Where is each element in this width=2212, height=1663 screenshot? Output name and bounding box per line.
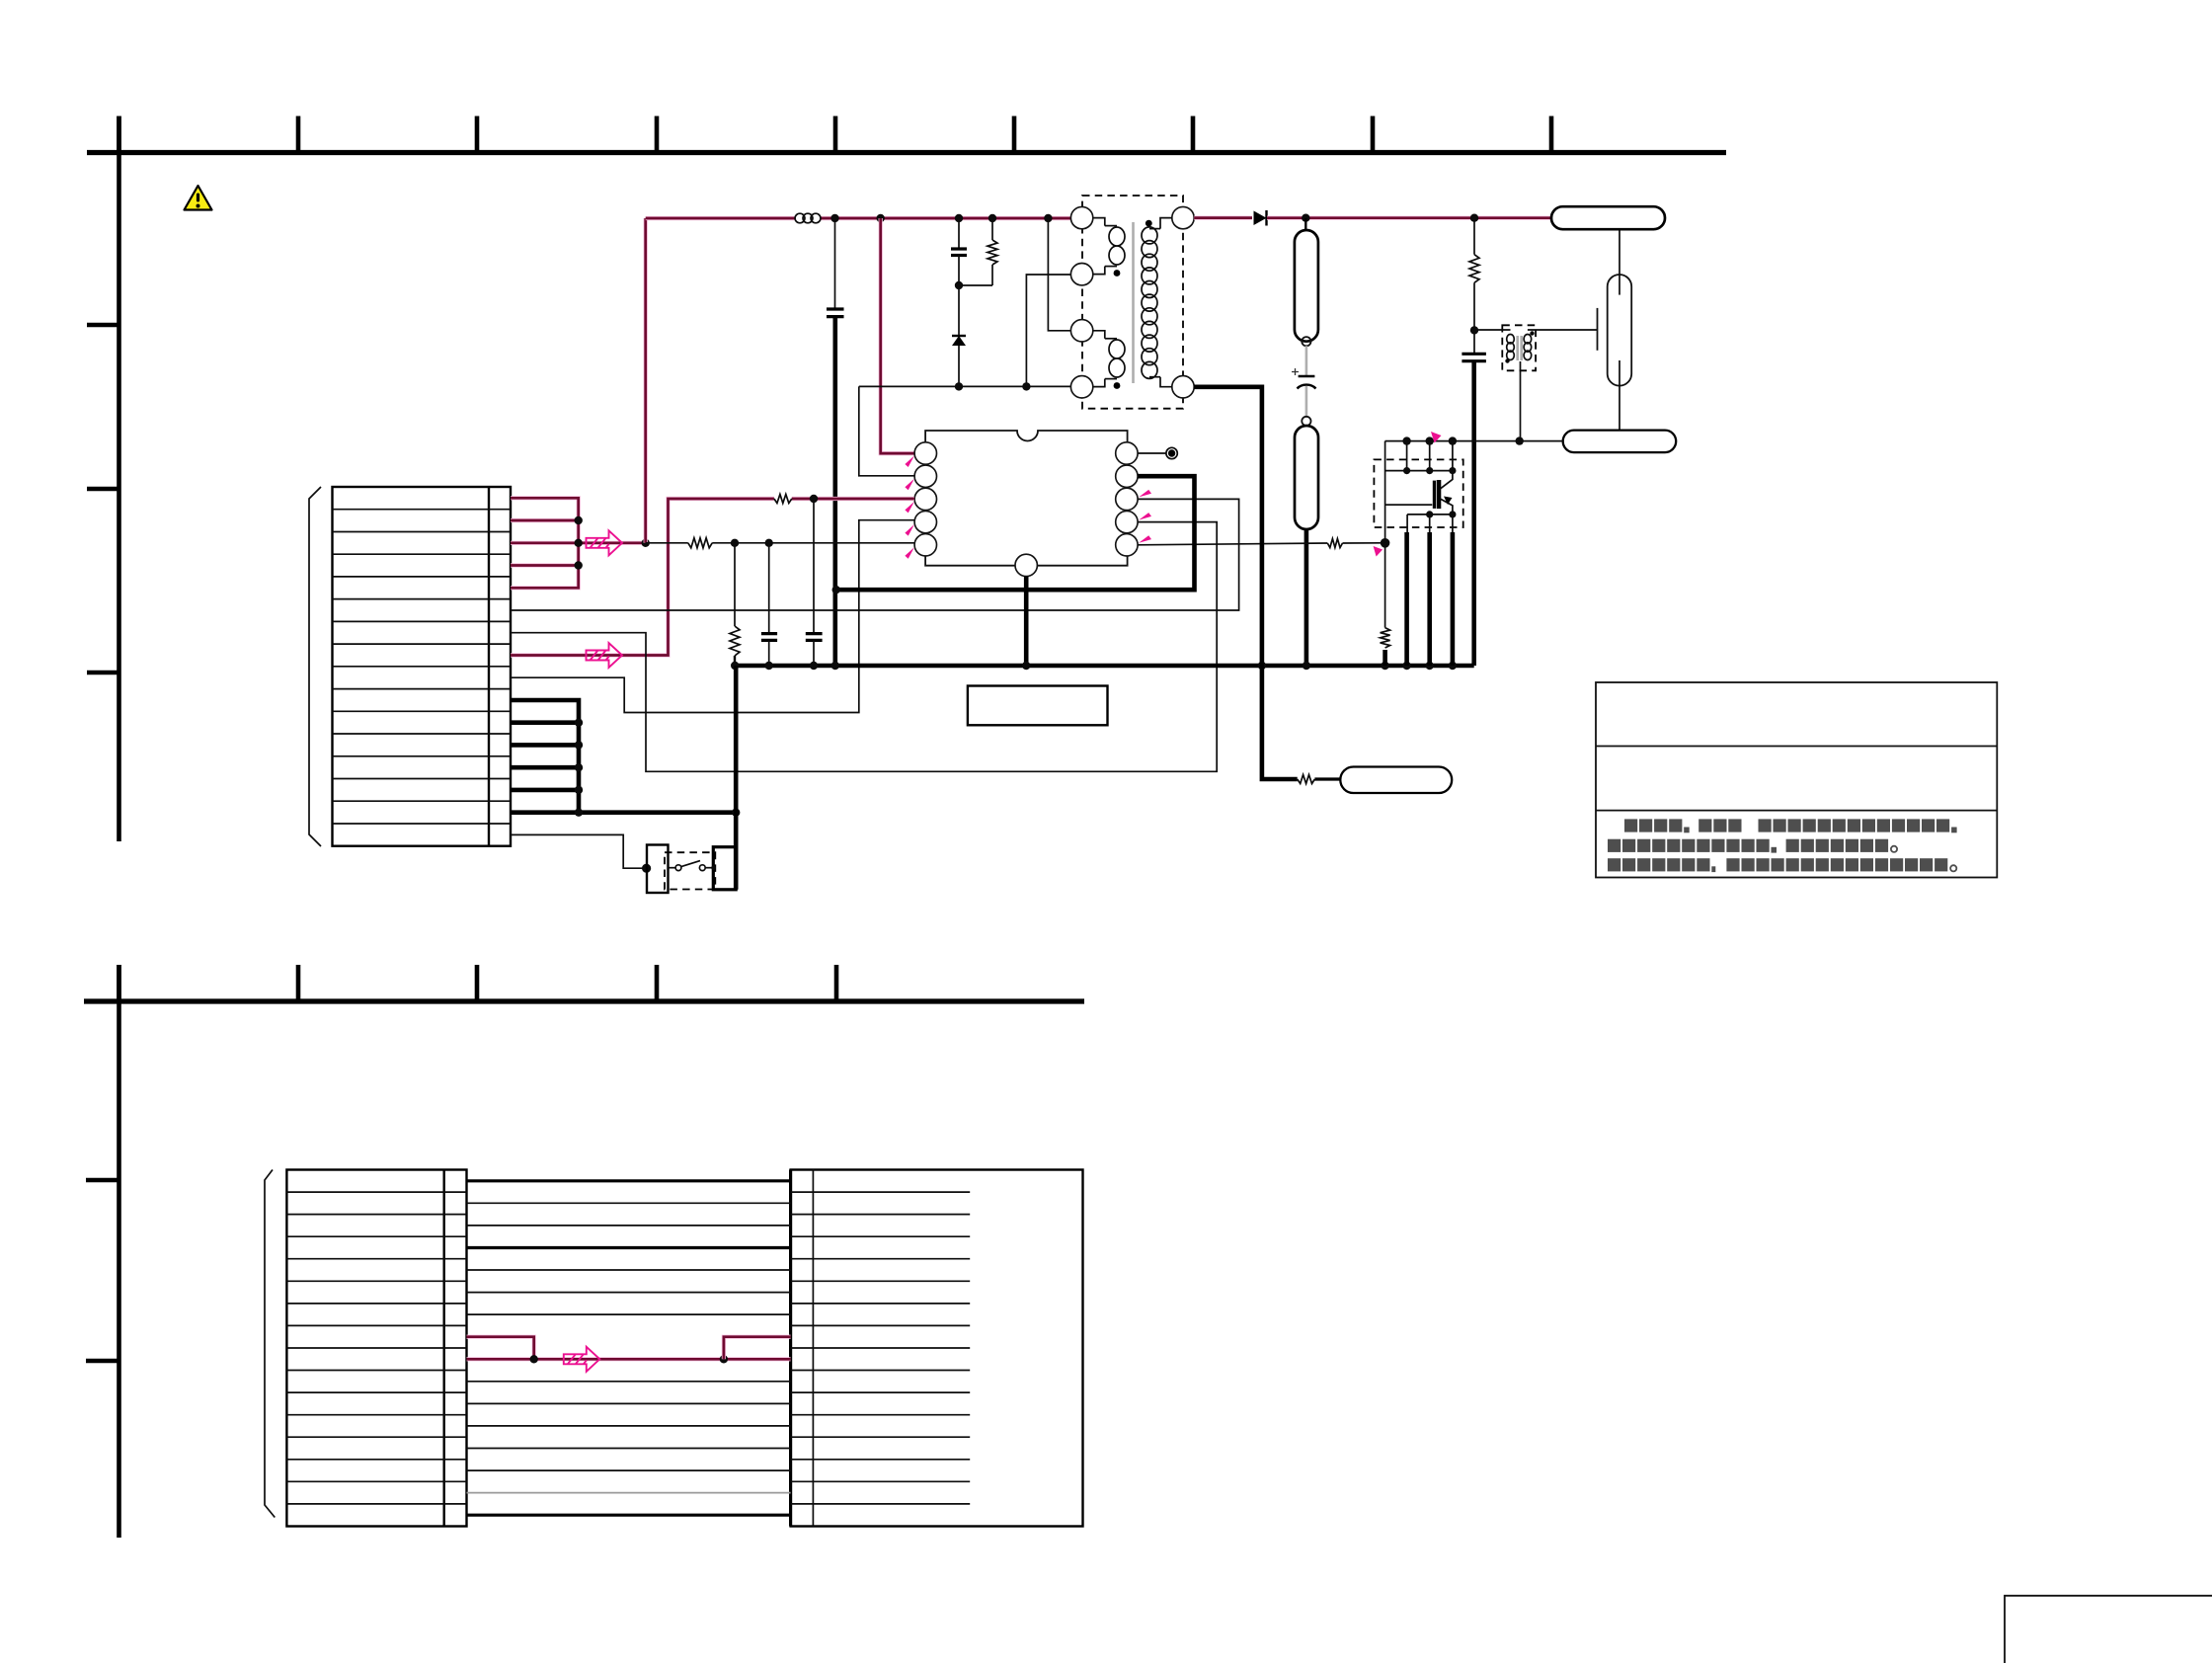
junction dot at switch input: [642, 864, 651, 873]
IC1 bottom pin: [1015, 554, 1037, 576]
resistor R4 (series resistor on pin3 feed): [774, 495, 792, 504]
wire (thick drop C4 to ground bus corner): [1471, 361, 1476, 666]
pink markers at IC1 left pins: [905, 456, 914, 468]
resistor R7 (gate series resistor): [1327, 539, 1342, 548]
flow arrow A3 (lower section): [564, 1347, 600, 1372]
bracket of CN2: [265, 1170, 275, 1518]
wire (thick drop bus to switch right block): [734, 666, 739, 890]
Q1 gate and channel bars: [1433, 481, 1436, 509]
capacitor C6 (pin3 filter cap): [813, 499, 815, 634]
junction dots on magenta bus: [575, 516, 583, 524]
Q1 emitter/kelvin bottom line: [1407, 514, 1453, 515]
diode D2 (secondary rectifier): [1254, 211, 1267, 226]
wire (magenta CN1 row3 to node A): [511, 541, 646, 545]
Q1 internal gate ladder: [1385, 470, 1453, 472]
resistor R1 (snubber resistor): [991, 218, 993, 240]
connector half (left rect of S1): [647, 845, 669, 894]
wires (lower harness rows 5-7): [467, 1269, 791, 1271]
resistor R5: [688, 538, 712, 548]
net tag TAG3 (pill): [1340, 767, 1452, 794]
capacitor C4 (damper cap): [1473, 330, 1475, 354]
surge arrester SA1 (capsule): [1608, 275, 1632, 386]
transistor Q1 (IGBT in dashed safety box): [1374, 459, 1462, 527]
switch S1 (AC interlock switch, dashed box): [665, 852, 715, 889]
IC1 left pins: [914, 442, 936, 464]
inductor L1 (line filter choke on rail): [795, 213, 821, 223]
pink marker near gate line: [1431, 432, 1442, 443]
wire (thick T1 secondary return): [1194, 387, 1262, 666]
wire (thick drop to R9 tag): [1262, 666, 1298, 779]
connector CN2 (lower left connector block): [286, 1170, 466, 1527]
T1 primary pins (left): [1070, 206, 1092, 228]
resistor R8 (gate-emitter resistor): [1384, 543, 1386, 628]
wire (lower harness row 15 gray): [467, 1492, 791, 1494]
capacitor C3 (electrolytic, polarized): [1305, 346, 1308, 376]
wire (thick row15 bus to switch column): [511, 810, 736, 815]
capacitor C1 (line cap below rail): [834, 218, 836, 309]
flow arrow A2 (pink hollow arrow row8): [587, 643, 623, 668]
resistor R9 (sense resistor to tag): [1298, 775, 1315, 784]
junction dot C2/R1: [955, 281, 963, 289]
wire (maroon rail T1 to diode D2): [1194, 216, 1252, 220]
wire (thick drop F2 to ground bus): [1304, 529, 1309, 666]
wire (T1 pin2 sense line): [1026, 275, 1070, 386]
wire (magenta rail branch to IC pin1): [881, 218, 914, 453]
capacitor C5: [768, 543, 770, 634]
diode D1 (clamp diode): [958, 285, 960, 336]
text line 3: [1608, 858, 1620, 871]
wire (thick IC1 bottom pin to ground bus): [1024, 577, 1029, 666]
junction dots on magenta row 9: [530, 1355, 538, 1363]
text line 1: [1624, 819, 1637, 831]
wire (thick Q1 stubs to ground bus): [1404, 532, 1409, 666]
fuse F1 (vertical capsule): [1304, 218, 1306, 230]
wire (T2 secondary return): [1520, 361, 1522, 441]
wire (lower harness row 4 thick): [467, 1246, 791, 1249]
wire (magenta vertical node A to top rail): [644, 218, 648, 543]
surge gap electrode: [1597, 308, 1599, 351]
wire (thick neutral drop from C1): [832, 317, 837, 666]
junction dots on output rail: [1302, 214, 1309, 222]
resistor R6 (divider to ground bus): [734, 543, 736, 626]
wire (row16 to interlock switch): [511, 834, 643, 868]
wire (magenta main row 9): [467, 1357, 791, 1361]
junction dots on pin5 feed: [731, 539, 739, 547]
connector CN3 (lower right connector block): [791, 1170, 1083, 1527]
T1 secondary winding: [1160, 218, 1172, 229]
resistor R3 (damper feed resistor): [1473, 218, 1475, 255]
T1 primary winding lower: [1093, 331, 1105, 339]
wires (lower harness rows 2-3): [467, 1202, 791, 1204]
wire (row7 staircase to IC1 right pin4): [511, 522, 1217, 772]
safety note table (Japanese text box): [1596, 682, 1997, 878]
wires (lower harness rows 10-14): [467, 1381, 791, 1383]
T1 phase dot upper primary: [1114, 270, 1121, 277]
text line 2: [1608, 839, 1620, 852]
pink markers at IC1 right pins 3-5: [1139, 490, 1151, 498]
transformer T2 (drive transformer, dashed safety box): [1502, 325, 1536, 370]
node A junction dot: [642, 539, 650, 547]
wire (rectifier return line y=391): [859, 385, 1071, 387]
Q1 gate lead: [1385, 504, 1433, 506]
wire (maroon rail D2 to output tag): [1267, 216, 1551, 220]
test point TP1 (circled dot at IC1 pin1 right): [1138, 452, 1166, 454]
wire (IC1 right pin5 to gate node): [1138, 543, 1327, 545]
IC1 right pins: [1116, 442, 1138, 464]
wire (row6 net to IC1 right pin3): [511, 499, 1239, 610]
junction dot R3/T2: [1470, 326, 1478, 334]
switch contacts and lever: [669, 867, 676, 869]
capacitor C2 (snubber cap): [958, 218, 960, 249]
Q1 gate vertical feed: [1384, 441, 1386, 543]
flow arrow A1 (pink hollow arrow row3): [587, 530, 623, 555]
wire (magenta feed to IC1 left pin3): [511, 499, 774, 656]
T1 primary winding upper: [1093, 218, 1105, 226]
wire (magenta bus from CN1 pins 1-5): [511, 498, 579, 588]
wire (lower harness row 1 thick): [467, 1179, 791, 1182]
label box (empty reference box): [968, 686, 1108, 726]
connector half (right rect of S1): [713, 847, 736, 890]
Q1 emitter path with arrow: [1440, 499, 1453, 515]
wire (main thick ground bus): [735, 664, 1473, 669]
partial frame box (bottom right): [2005, 1596, 2212, 1663]
gate node junction dot: [1381, 538, 1390, 548]
junction dot on pin3 feed: [810, 495, 818, 503]
wire (magenta hook row 8 right): [724, 1337, 791, 1360]
wire (magenta hook row 8 left): [467, 1337, 534, 1360]
wire (row9 staircase to IC1 left pin4): [511, 520, 914, 713]
transformer T1 (switching transformer, dashed safety box): [1082, 196, 1183, 409]
T1 phase dot secondary: [1145, 220, 1152, 227]
pink marker at gate node: [1374, 546, 1383, 557]
wire (thick IC1 right pin2 to aux bus): [836, 476, 1195, 590]
connector CN1 (upper multi-pin connector block): [333, 487, 512, 846]
junction dots on rail: [830, 214, 838, 222]
wire (lower harness row 16 thick): [467, 1514, 791, 1517]
T1 secondary pins (right): [1172, 206, 1194, 228]
T1 phase dot lower primary: [1114, 382, 1121, 389]
wire (rectifier return to IC1 left pin2): [859, 386, 914, 475]
wire (rail branch to T1 pin3): [1048, 218, 1070, 331]
fuse F2 (vertical capsule): [1295, 426, 1318, 529]
wire (main maroon top rail): [646, 216, 796, 220]
net tag TAG2 (lower right pill): [1563, 431, 1677, 453]
T1 core: [1132, 222, 1135, 383]
junction dot aux bus: [832, 586, 840, 594]
bracket of CN1: [309, 487, 321, 846]
wire (node A to R5 to IC1 left pin5): [646, 542, 688, 544]
warning symbol W1 (yellow caution triangle): [185, 186, 212, 210]
net tag TAG1 (output rail pill): [1551, 206, 1665, 229]
op-amp U1 / hybrid IC block IC1: [925, 431, 1128, 566]
Q1 collector path: [1440, 471, 1453, 490]
wire (gate drive top line y=446.6): [1385, 440, 1563, 442]
wire (thick CN1 rows 10-15 ground bus): [511, 700, 579, 813]
